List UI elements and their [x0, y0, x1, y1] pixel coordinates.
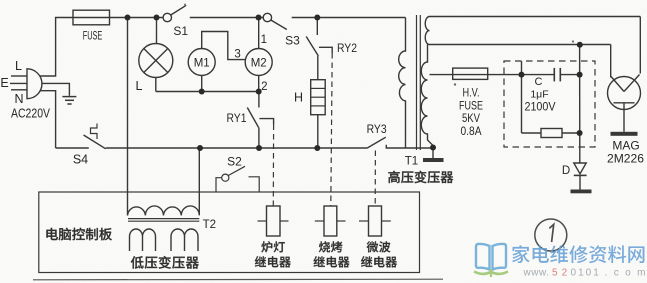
control board box: [39, 192, 420, 273]
transformer T2 core: [128, 218, 199, 220]
motor M2 (fan): [258, 18, 260, 49]
relay contact RY3: [368, 137, 386, 148]
ground (mains earth, 3-bar): [62, 96, 76, 98]
switch S1 (pivot + blade): [163, 13, 171, 21]
label 继电器 (lamp relay): [255, 256, 266, 267]
switch S4 (door interlock, blade + plunger): [84, 135, 106, 149]
mechanical link RY2 to grill relay coil: [331, 53, 332, 206]
switch S2 (door monitor, pivot + blade): [222, 174, 229, 181]
label 继电器 (microwave relay): [361, 256, 372, 267]
node lamp tap: [154, 15, 160, 21]
mechanical link RY1 to lamp relay coil: [272, 125, 274, 207]
scan speck near fuse: [454, 83, 456, 85]
wire: HV node vertical (cap/diode): [579, 45, 581, 163]
node fuse/T2 tap: [125, 15, 131, 21]
plug prong E: [10, 82, 27, 84]
label 烧烤: [319, 241, 330, 252]
label 低压变压器: [131, 256, 144, 269]
label 高压变压器: [388, 171, 400, 183]
node M2/S1-S3: [256, 15, 262, 21]
node filament/cap: [577, 42, 583, 48]
wire: top bus fuse to S1: [110, 17, 163, 19]
mechanical link RY3 to microwave relay coil: [374, 151, 376, 207]
dashed enclosure (HV capacitor module): [504, 61, 595, 147]
node T2 return: [197, 145, 203, 151]
capacitor C 1uF 2100V: [522, 74, 555, 76]
wire: M1 top to M2 pin 3: [202, 32, 246, 60]
hv fuse H.V.FUSE 5KV 0.8A: [430, 74, 522, 76]
wire: bottom rail (N) left of S4: [56, 147, 89, 149]
node cap left: [519, 72, 525, 78]
node resistor right: [577, 130, 583, 136]
wire: mains N conductor down left rail: [40, 91, 56, 148]
wire: earth conductor: [42, 83, 70, 95]
magnetron MAG 2M226: [639, 17, 641, 74]
plug prong N: [11, 89, 27, 91]
node RY2 tap: [314, 15, 320, 21]
heater H (grill element): [311, 80, 326, 115]
transformer T1 primary winding: [399, 18, 406, 149]
label 继电器 (grill relay): [314, 256, 325, 267]
node M1 bottom: [199, 89, 205, 95]
transformer T1 HV secondary winding: [421, 45, 433, 148]
wire: top bus S3 to T1: [292, 17, 406, 19]
plug AC220V (mains plug body): [27, 69, 42, 99]
switch S3 (pivot + blade): [263, 13, 271, 21]
node RY1 return: [256, 145, 262, 151]
transformer T2 primary winding: [128, 148, 200, 215]
lamp L (oven lamp): [156, 18, 158, 44]
relay contact RY1: [258, 92, 260, 108]
node T1 ground: [430, 145, 436, 151]
watermark: book logo: [476, 244, 506, 270]
relay coil 微波继电器 (microwave relay): [369, 206, 382, 236]
transformer T1 filament winding + top filament wire: [425, 17, 640, 45]
resistor (bleeder): [521, 61, 523, 133]
transformer T1 core: [416, 15, 418, 150]
label 炉灯: [261, 241, 272, 252]
transformer T2 secondary windings: [130, 229, 156, 251]
motor M1 (turntable): [201, 76, 203, 92]
callout circle 1: [535, 219, 567, 251]
ground (T1 chassis): [423, 158, 444, 162]
diode D: [574, 163, 586, 174]
wire: rail into T1 ground node: [432, 148, 434, 159]
watermark: 家电维修资料网: [512, 245, 530, 263]
node M2/RY1: [256, 89, 262, 95]
wire: fuse node down to T2 primary (left lead): [127, 18, 129, 216]
ground (diode): [571, 190, 592, 194]
label 电脑控制板: [46, 228, 57, 240]
plug prong L: [11, 75, 27, 77]
fuse FUSE: [73, 10, 110, 25]
relay contact RY2: [316, 18, 318, 36]
scan speck above fuse: [184, 4, 186, 6]
node cap right: [577, 72, 583, 78]
relay coil 炉灯继电器 (lamp relay): [267, 206, 281, 236]
node heater return: [314, 145, 320, 151]
ground (magnetron): [611, 132, 638, 136]
label 微波: [367, 241, 379, 252]
relay coil 烧烤继电器 (grill relay): [324, 206, 337, 236]
wire: bottom rail S4 to T1: [106, 147, 368, 149]
wire: mains L conductor (plug to fuse, left rail top): [40, 18, 73, 77]
wire: top bus S1 to M2 node: [190, 17, 263, 19]
scan artifact line under board: [33, 278, 443, 281]
scan speck above cap node: [572, 40, 574, 42]
wire: lamp/motor bottom link: [156, 91, 259, 93]
